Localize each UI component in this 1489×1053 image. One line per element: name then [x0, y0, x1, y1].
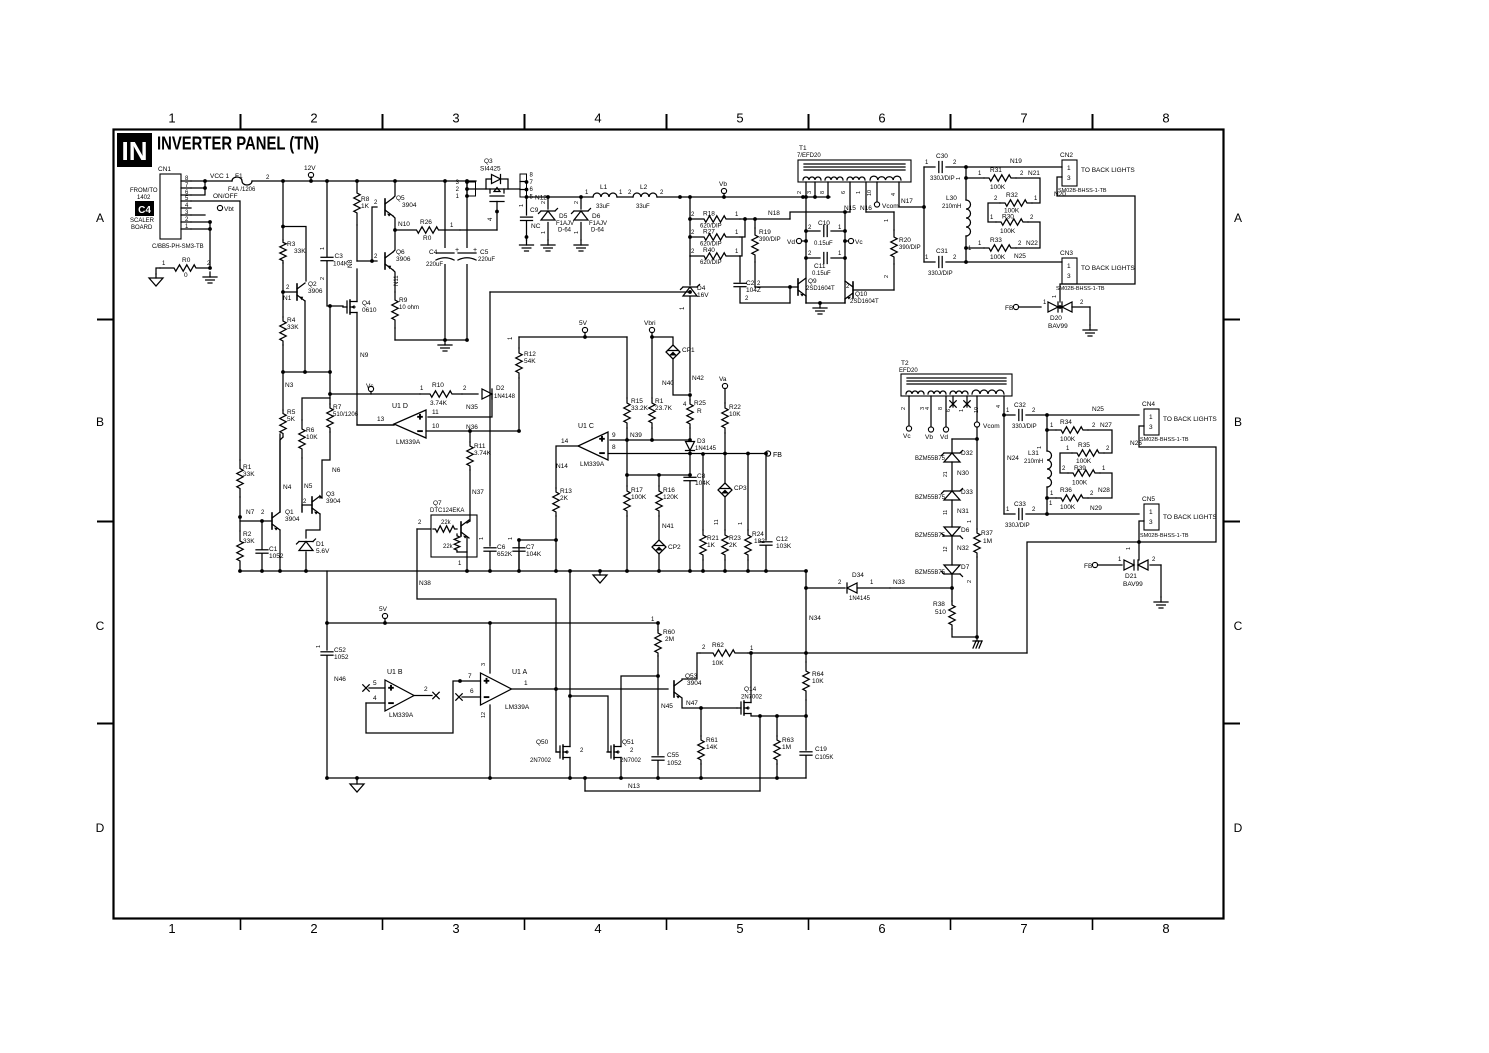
wire r30-r33: [1016, 222, 1040, 248]
terminal Vc: [848, 238, 853, 243]
svg-text:33K: 33K: [287, 324, 299, 331]
junction C1 top: [260, 519, 264, 523]
junction n36 r11: [468, 429, 472, 433]
wire q53 collector: [682, 653, 697, 679]
T2 winding 3: [950, 391, 968, 394]
wire u1c out: [556, 446, 578, 488]
wire q7 base in: [417, 528, 431, 530]
wire l30 rail top: [965, 167, 967, 200]
resistor Q7 internal2 22k: [454, 534, 460, 552]
wire l31 rail top: [1046, 415, 1048, 451]
wire r11 bot: [469, 470, 471, 521]
svg-text:Vc: Vc: [903, 433, 911, 440]
svg-text:N17: N17: [901, 198, 913, 205]
svg-text:C105K: C105K: [815, 755, 833, 761]
junction q14 src: [758, 714, 762, 718]
capacitor C9: [521, 217, 533, 220]
svg-text:N38: N38: [419, 580, 431, 587]
svg-text:1M: 1M: [782, 744, 791, 751]
wire r34 l: [1047, 429, 1056, 431]
junction q3 p7: [525, 180, 529, 184]
svg-text:Q50: Q50: [536, 739, 549, 746]
svg-text:620/DIP: 620/DIP: [700, 260, 722, 266]
wire Q5 emitter: [393, 216, 395, 230]
terminal 5V2: [382, 613, 387, 618]
capacitor C31 330J/DIP: [939, 257, 942, 268]
wire 5V bus: [519, 336, 627, 338]
svg-text:11: 11: [943, 510, 949, 515]
svg-text:1N4148: 1N4148: [494, 394, 516, 400]
wire vd stub: [802, 240, 807, 242]
junction q9 base: [788, 285, 792, 289]
wire r37 down: [976, 557, 978, 637]
transistor Q5 3904: [385, 198, 393, 217]
svg-text:33K: 33K: [243, 538, 255, 545]
svg-text:220uF: 220uF: [426, 262, 443, 268]
zener D7 BZM55B75: [942, 565, 963, 577]
wire r20 link: [866, 211, 894, 213]
wire q3 gate down: [496, 202, 498, 231]
svg-text:0.15uF: 0.15uF: [812, 271, 831, 277]
svg-text:N21: N21: [1028, 170, 1040, 177]
svg-text:R3: R3: [287, 241, 296, 248]
svg-text:9: 9: [612, 432, 616, 439]
zener D33 BZM55B75: [942, 489, 963, 501]
capacitor C55 1052: [652, 757, 664, 760]
junction r34 l: [1045, 428, 1049, 432]
svg-text:120K: 120K: [663, 494, 679, 501]
transformer T2: [901, 374, 1012, 396]
svg-text:−: −: [599, 448, 604, 458]
wire c31 l: [924, 261, 935, 263]
wire x283 top: [282, 181, 284, 240]
transistor Q6 3906: [385, 252, 393, 270]
svg-text:CN1: CN1: [158, 166, 171, 173]
svg-text:N14: N14: [556, 463, 568, 470]
wire cn3 pin3 to d20: [1059, 289, 1061, 302]
wire base tie: [357, 207, 377, 261]
svg-text:4: 4: [891, 193, 897, 196]
svg-text:4: 4: [373, 695, 377, 702]
svg-text:R23: R23: [729, 535, 741, 542]
svg-text:L2: L2: [640, 184, 648, 191]
svg-text:3904: 3904: [687, 680, 702, 687]
wire C1 top: [261, 521, 263, 549]
wire D4 down: [689, 297, 691, 392]
svg-text:104K: 104K: [526, 551, 542, 558]
wire left rail: [805, 197, 807, 303]
junction d6: [579, 195, 583, 199]
svg-text:LM339A: LM339A: [389, 712, 414, 719]
transformer T1: [798, 160, 911, 182]
wire d6-d7: [951, 536, 953, 565]
svg-text:C52: C52: [334, 647, 346, 654]
svg-text:R8: R8: [361, 196, 370, 203]
resistor Q7 internal 22k: [433, 526, 457, 532]
wire N17: [899, 182, 924, 207]
wire u1c in8 / FB line: [608, 453, 765, 455]
svg-text:8: 8: [1162, 921, 1169, 936]
wire r61 bot: [700, 764, 702, 778]
junction bus x283: [281, 179, 285, 183]
wire q14 drain: [750, 653, 752, 703]
svg-text:220uF: 220uF: [478, 257, 495, 263]
svg-text:DTC124EKA: DTC124EKA: [430, 508, 464, 514]
terminal Vs: [368, 386, 373, 391]
wire VCC_1: [191, 180, 232, 182]
terminal Vb: [721, 188, 726, 193]
junction d5: [546, 195, 550, 199]
wire r34-r35: [1088, 430, 1112, 453]
svg-text:BOARD: BOARD: [131, 225, 153, 231]
svg-text:R24: R24: [752, 531, 764, 538]
svg-text:100K: 100K: [990, 184, 1006, 191]
wire q50 src: [569, 758, 571, 779]
svg-text:R62: R62: [712, 642, 724, 649]
wire vcom down: [976, 427, 978, 529]
svg-text:F4A /1206: F4A /1206: [228, 187, 256, 193]
resistor R3 33K: [280, 240, 286, 263]
wire 12V stub: [310, 177, 312, 181]
T2 winding 4: [972, 390, 1004, 394]
wire q9 base: [755, 286, 798, 288]
wire u1b in4: [366, 702, 385, 704]
wire q50 drain net: [569, 571, 571, 747]
junction x815: [813, 195, 817, 199]
wire c52 bot: [326, 656, 328, 778]
svg-text:R39: R39: [1074, 465, 1086, 472]
svg-text:U1 C: U1 C: [578, 423, 594, 430]
wire c32 r: [1026, 414, 1139, 416]
svg-text:C7: C7: [526, 544, 535, 551]
zener D4 16V: [681, 285, 700, 297]
svg-text:L1: L1: [600, 184, 608, 191]
svg-text:C33: C33: [1014, 501, 1026, 508]
MOSFET Q4 0610: [343, 300, 357, 314]
svg-text:1K: 1K: [361, 203, 370, 210]
wire r40 bus: [740, 237, 742, 256]
T2 winding 1: [906, 391, 924, 394]
resistor R4 33K: [280, 317, 286, 345]
svg-text:N27: N27: [1100, 422, 1112, 429]
transistor Q9 2SD1604T: [798, 278, 806, 297]
wire Q1 collector: [279, 434, 281, 512]
transistor Q7 internal: [461, 520, 469, 539]
wire Q2 emitter feed: [283, 227, 306, 282]
svg-text:7: 7: [1020, 921, 1027, 936]
svg-text:Q14: Q14: [744, 686, 757, 693]
junction r37 gnd: [975, 635, 979, 639]
junction r62 q14: [749, 651, 753, 655]
svg-text:1N4145: 1N4145: [849, 596, 871, 602]
wire r62 l: [697, 652, 700, 654]
junction fb r24: [746, 452, 750, 456]
svg-text:R27: R27: [703, 229, 715, 236]
svg-text:R13: R13: [560, 488, 572, 495]
svg-text:N6: N6: [332, 467, 341, 474]
capacitor C19 C105K: [800, 752, 812, 755]
resistor R61 14K: [698, 736, 704, 764]
wire r12 bot: [518, 378, 520, 431]
junction q3 p3: [465, 180, 469, 184]
wire r21 bot: [702, 560, 704, 571]
svg-text:R1: R1: [243, 464, 252, 471]
svg-text:C: C: [96, 619, 105, 633]
wire Q3 collector: [320, 496, 322, 498]
svg-text:0: 0: [184, 272, 188, 279]
wire q14 src: [751, 714, 760, 792]
wire va down: [724, 389, 726, 404]
svg-text:1052: 1052: [334, 654, 349, 661]
capacitor C52 1052: [321, 652, 333, 655]
wire Q5 collector: [393, 181, 395, 198]
svg-text:5: 5: [373, 680, 377, 687]
wire q7 emitter: [466, 537, 468, 571]
svg-text:EFD20: EFD20: [899, 368, 918, 374]
wire bottom bus: [240, 570, 806, 572]
junction u1a in7: [458, 679, 462, 683]
svg-text:LM339A: LM339A: [396, 439, 421, 446]
wire r32-r30: [988, 203, 1000, 222]
svg-text:CN3: CN3: [1060, 250, 1073, 257]
wire c7 top: [518, 540, 520, 547]
svg-text:R26: R26: [420, 219, 432, 226]
zener D1 5.6V: [297, 539, 316, 551]
svg-text:D-64: D-64: [591, 228, 605, 234]
junction bus571 x690: [688, 569, 692, 573]
wire gnd bus t1b: [805, 296, 807, 303]
svg-text:BZM55B75: BZM55B75: [915, 570, 946, 576]
diode D34 1N4145: [847, 583, 857, 593]
terminal Vcom2: [974, 422, 979, 427]
dual diode D20 BAV99: [1048, 302, 1072, 312]
wire r23 bot: [724, 560, 726, 571]
resistor R27 620/DIP: [690, 234, 740, 240]
fuse F1: [232, 177, 252, 185]
svg-text:T2: T2: [901, 360, 909, 367]
zener D6 F1AJV: [572, 209, 591, 221]
IN logo block: [117, 133, 152, 167]
junction pin6: [203, 186, 207, 190]
svg-text:SM02B-BHSS-1-TB: SM02B-BHSS-1-TB: [1056, 286, 1105, 292]
svg-text:SM02B-BHSS-1-TB: SM02B-BHSS-1-TB: [1140, 437, 1189, 443]
wire r60 top: [657, 623, 659, 630]
junction bus571 x240: [238, 569, 242, 573]
svg-text:ON/OFF: ON/OFF: [213, 193, 238, 200]
wire x924: [923, 167, 925, 262]
T2 pin Vb: [930, 396, 932, 427]
svg-text:C/BB5-PH-SM3-TB: C/BB5-PH-SM3-TB: [152, 244, 204, 250]
MOSFET Q14 2N7002: [737, 701, 751, 715]
wire r64 bot: [805, 700, 807, 750]
svg-text:10K: 10K: [712, 660, 724, 667]
svg-text:CN2: CN2: [1060, 152, 1073, 159]
wire Q2 collector down: [304, 301, 306, 372]
svg-text:1402: 1402: [137, 195, 151, 201]
junction vcom bzm: [975, 437, 979, 441]
svg-text:FB: FB: [773, 452, 782, 459]
wire gnd bus: [395, 339, 467, 341]
junction r64 y716: [804, 714, 808, 718]
wire N13: [585, 790, 760, 792]
resistor R12 54K: [516, 348, 522, 378]
resistor R17 100K: [624, 486, 630, 516]
wire q3 diode loop: [486, 179, 491, 189]
wire r19 bot: [754, 262, 756, 287]
resistor R26: [395, 227, 460, 233]
svg-text:−: −: [417, 426, 422, 436]
capacitor C3 104K: [321, 257, 333, 260]
svg-text:1: 1: [168, 921, 175, 936]
svg-text:F1AJV: F1AJV: [556, 221, 574, 227]
svg-text:Q3: Q3: [484, 158, 493, 165]
svg-text:R10: R10: [432, 382, 444, 389]
svg-text:330J/DIP: 330J/DIP: [928, 271, 953, 277]
junction bus x330: [325, 179, 329, 183]
svg-text:C4: C4: [138, 205, 151, 216]
resistor R13 2K: [553, 488, 559, 516]
svg-text:Vcom: Vcom: [983, 423, 1000, 430]
svg-text:D4: D4: [697, 285, 706, 292]
junction fb c12: [764, 452, 768, 456]
resistor R16 120K: [656, 486, 662, 516]
T2 pin Vd: [945, 396, 947, 427]
svg-text:3: 3: [452, 921, 459, 936]
T1 winding 4: [870, 176, 901, 180]
svg-text:Q4: Q4: [362, 300, 371, 307]
wire u1d out: [357, 424, 394, 426]
svg-text:D6: D6: [592, 213, 601, 220]
junction l30 bot: [964, 260, 968, 264]
junction R0 right: [208, 266, 212, 270]
wire N38: [417, 529, 556, 688]
svg-text:3: 3: [1149, 424, 1153, 431]
svg-text:652K: 652K: [497, 551, 513, 558]
svg-text:6: 6: [470, 688, 474, 695]
svg-text:10K: 10K: [812, 678, 824, 685]
svg-text:Q3: Q3: [326, 491, 335, 498]
svg-text:10: 10: [867, 190, 873, 196]
svg-text:D6: D6: [961, 527, 970, 534]
wire d5 down: [547, 223, 549, 241]
junction l30 top: [964, 165, 968, 169]
capacitor C12 103K: [760, 542, 772, 545]
zener D6 BZM55B75: [942, 527, 963, 539]
svg-text:Vbt: Vbt: [224, 206, 234, 213]
junction c11 r: [843, 256, 847, 260]
svg-text:+: +: [484, 676, 489, 686]
svg-text:10: 10: [432, 423, 440, 430]
wire Q3 base: [302, 505, 312, 512]
svg-text:R32: R32: [1006, 192, 1018, 199]
svg-text:INVERTER PANEL (TN): INVERTER PANEL (TN): [157, 133, 319, 154]
transistor Q10 2SD1604T: [845, 281, 853, 300]
T1 pin 8: [827, 182, 829, 197]
svg-text:CN5: CN5: [1142, 496, 1155, 503]
svg-text:Vd: Vd: [940, 434, 948, 441]
svg-text:11: 11: [714, 519, 720, 525]
svg-text:16V: 16V: [697, 292, 709, 299]
wire d21 tap: [1138, 542, 1140, 560]
wire y475: [627, 474, 690, 476]
wire y716: [760, 715, 806, 717]
svg-text:R19: R19: [759, 229, 771, 236]
svg-text:CP2: CP2: [668, 544, 681, 551]
CN1 pin 7 stub: [181, 187, 191, 189]
wire Q3 emitter: [306, 514, 320, 538]
svg-text:N33: N33: [893, 579, 905, 586]
svg-text:2N7002: 2N7002: [530, 758, 552, 764]
svg-text:104K: 104K: [333, 261, 349, 268]
wire d21 r: [1150, 564, 1161, 566]
wire pin3: [191, 214, 205, 216]
resistor R37 1M: [974, 529, 980, 557]
resistor R31 100K: [984, 175, 1016, 181]
wire ON/OFF: [191, 201, 240, 460]
svg-text:Vcom: Vcom: [882, 203, 899, 210]
junction d20 center: [1058, 305, 1062, 309]
digital transistor Q7 box: [431, 515, 477, 557]
capacitor C30 330J/DIP: [939, 162, 942, 173]
junction bus571 x280: [278, 569, 282, 573]
svg-text:2SD1604T: 2SD1604T: [850, 299, 879, 305]
resistor R62 10K: [700, 650, 748, 656]
svg-text:1052: 1052: [269, 553, 284, 560]
wire n24 rail: [1003, 415, 1005, 514]
junction r14 bot: [650, 438, 654, 442]
svg-text:FB: FB: [1005, 305, 1013, 312]
resistor R23 2K: [722, 530, 728, 560]
capacitor C8 104K: [684, 477, 696, 480]
svg-text:0.15uF: 0.15uF: [814, 241, 833, 247]
junction q3 p5: [525, 195, 529, 199]
wire r63 bot: [776, 764, 778, 778]
terminal Vb2: [928, 427, 933, 432]
svg-text:D34: D34: [852, 572, 864, 579]
wire u1b feedback: [366, 681, 481, 733]
svg-text:1: 1: [316, 645, 322, 648]
wire R3-Q2: [282, 263, 284, 317]
wire 5V bus2: [327, 622, 658, 624]
junction r63 top: [775, 714, 779, 718]
svg-text:SI4425: SI4425: [480, 166, 501, 173]
junction c10 l: [804, 229, 808, 233]
junction c4 gnd: [443, 338, 447, 342]
svg-text:R0: R0: [423, 235, 432, 242]
svg-text:R9: R9: [399, 297, 408, 304]
wire c32 l: [1004, 414, 1015, 416]
svg-text:R34: R34: [1060, 419, 1072, 426]
svg-text:N18: N18: [768, 210, 780, 217]
svg-text:N5: N5: [304, 483, 313, 490]
wire r19 top: [754, 219, 756, 228]
ground: [1154, 597, 1168, 608]
svg-text:8: 8: [820, 191, 826, 194]
svg-text:R12: R12: [524, 351, 536, 358]
CN1 pin 8 stub: [181, 180, 191, 182]
svg-text:C55: C55: [667, 752, 679, 759]
svg-text:21: 21: [943, 471, 949, 477]
svg-text:1: 1: [1067, 165, 1071, 172]
transistor Q3 3904: [312, 496, 320, 515]
svg-text:R18: R18: [703, 211, 715, 218]
svg-text:1: 1: [168, 111, 175, 126]
svg-text:N9: N9: [360, 352, 369, 359]
ground triangle: [149, 274, 163, 286]
capacitor C33 330J/DIP: [1019, 509, 1022, 520]
junction t1p8: [826, 195, 830, 199]
svg-text:3904: 3904: [326, 498, 341, 505]
